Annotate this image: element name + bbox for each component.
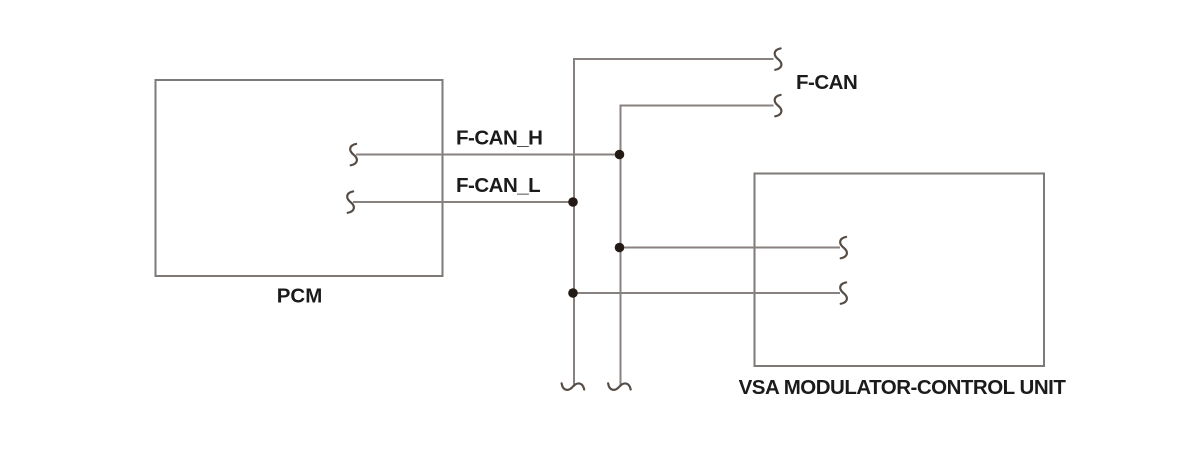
svg-text:F-CAN_H: F-CAN_H [456, 127, 542, 150]
junction node VSA upper on bus 2 [615, 243, 625, 253]
wire F-CAN_H from PCM to bus node [356, 154, 620, 156]
connector break symbol at VSA pin lower [840, 282, 847, 303]
wire bus line 1 vertical with top branch to F-CAN [574, 59, 774, 387]
svg-text:PCM: PCM [277, 285, 323, 308]
wire branch to VSA unit lower [573, 292, 840, 294]
svg-text:VSA MODULATOR-CONTROL UNIT: VSA MODULATOR-CONTROL UNIT [739, 376, 1067, 399]
PCM box U1 [156, 80, 443, 276]
svg-text:F-CAN_L: F-CAN_L [456, 174, 540, 197]
connector break symbol at VSA pin upper [840, 237, 847, 258]
wire F-CAN_L from PCM to bus node [353, 201, 573, 203]
connector break symbol at PCM pin F-CAN_L [347, 191, 354, 212]
VSA MODULATOR-CONTROL UNIT box U2 [755, 174, 1045, 367]
wire bus line 2 vertical with top branch to F-CAN [621, 106, 774, 387]
connector break symbol at F-CAN upper wire end [775, 48, 782, 69]
junction node VSA lower on bus 1 [568, 288, 578, 298]
junction node F-CAN_H on bus 2 [615, 150, 625, 160]
connector break symbol at F-CAN lower wire end [775, 95, 782, 116]
junction node F-CAN_L on bus 1 [568, 197, 578, 207]
wire break symbol at bottom of bus line 2 [608, 383, 631, 390]
wire break symbol at bottom of bus line 1 [562, 383, 585, 390]
connector break symbol at PCM pin F-CAN_H [350, 144, 357, 165]
wire branch to VSA unit upper [620, 247, 841, 249]
svg-text:F-CAN: F-CAN [796, 71, 857, 94]
